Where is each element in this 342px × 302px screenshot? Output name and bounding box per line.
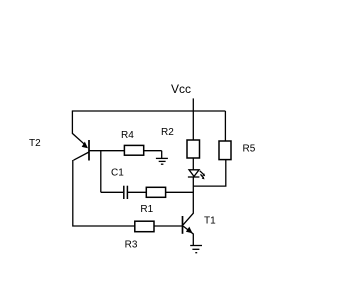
svg-text:R5: R5 <box>243 143 256 154</box>
svg-text:R4: R4 <box>121 130 134 141</box>
svg-text:R3: R3 <box>125 239 138 250</box>
svg-text:Vcc: Vcc <box>171 82 191 96</box>
svg-text:R1: R1 <box>140 204 153 215</box>
svg-text:T2: T2 <box>29 138 41 149</box>
svg-text:T1: T1 <box>204 216 216 227</box>
svg-text:R2: R2 <box>161 127 174 138</box>
svg-text:C1: C1 <box>111 168 124 179</box>
